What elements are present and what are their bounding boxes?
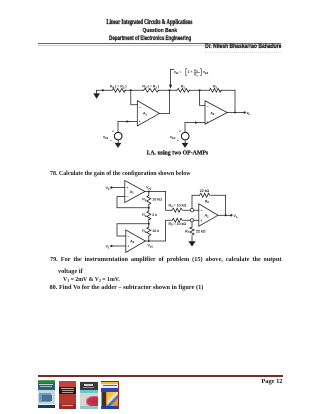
svg-text:−: − (127, 235, 129, 239)
svg-text:R2: R2 (213, 85, 218, 90)
svg-text:+: + (206, 121, 208, 125)
svg-text:R5 = 10 kΩ: R5 = 10 kΩ (169, 222, 187, 227)
svg-text:−: − (110, 139, 112, 143)
svg-text:vo1 =: vo1 = (174, 70, 181, 75)
svg-text:R3 ( = R1 ): R3 ( = R1 ) (142, 85, 159, 90)
svg-text:R2: R2 (194, 73, 198, 78)
svg-text:+: + (112, 129, 114, 133)
svg-text:vin1: vin1 (203, 70, 209, 75)
svg-text:I.A. using two OP-AMPs: I.A. using two OP-AMPs (147, 151, 209, 157)
svg-text:Vo: Vo (234, 214, 238, 219)
svg-text:+: + (127, 245, 129, 249)
svg-text:10 kΩ: 10 kΩ (152, 198, 162, 202)
svg-text:R1: R1 (181, 85, 186, 90)
svg-text:A2: A2 (211, 111, 215, 116)
svg-text:1 +: 1 + (188, 70, 193, 74)
svg-text:V1: V1 (106, 245, 110, 250)
svg-text:vin1: vin1 (103, 135, 109, 140)
svg-text:−: − (201, 209, 203, 213)
svg-text:R6: R6 (205, 199, 210, 204)
svg-text:+: + (126, 186, 128, 190)
svg-text:Vo2: Vo2 (146, 185, 152, 190)
svg-text:22 kΩ: 22 kΩ (200, 189, 210, 193)
svg-text:10 k: 10 k (152, 229, 159, 233)
svg-text:vin2: vin2 (170, 135, 176, 140)
svg-text:R7: R7 (185, 229, 190, 234)
svg-text:A2: A2 (205, 214, 209, 219)
svg-text:−: − (139, 105, 142, 109)
svg-text:vo: vo (247, 111, 251, 116)
svg-text:A3: A3 (130, 239, 134, 244)
svg-text:R3: R3 (142, 198, 147, 203)
svg-text:2 k: 2 k (152, 213, 157, 217)
svg-text:R3: R3 (142, 229, 147, 234)
svg-text:−: − (177, 139, 179, 143)
svg-text:A1: A1 (130, 190, 134, 195)
svg-text:22 kΩ: 22 kΩ (196, 229, 206, 233)
svg-text:+: + (179, 129, 181, 133)
svg-text:A1: A1 (143, 112, 147, 117)
svg-text:R2: R2 (142, 213, 147, 218)
svg-text:Vo1: Vo1 (148, 243, 154, 248)
svg-text:−: − (206, 104, 209, 108)
svg-text:+: + (139, 120, 141, 124)
svg-text:V2: V2 (106, 186, 110, 191)
svg-text:+: + (201, 219, 203, 223)
svg-text:−: − (126, 195, 128, 199)
svg-text:R4 = 10 kΩ: R4 = 10 kΩ (169, 204, 187, 209)
